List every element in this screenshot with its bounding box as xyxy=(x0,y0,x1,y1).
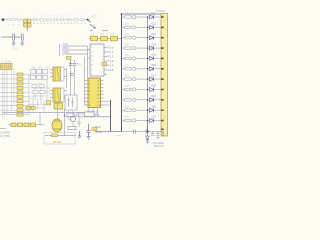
svg-text:D18: D18 xyxy=(152,85,157,88)
wire top chain horizontal xyxy=(1,19,90,21)
svg-text:CON16: CON16 xyxy=(156,9,165,13)
resistor R1 xyxy=(7,18,21,20)
resistor grid R10-R15 xyxy=(31,70,48,80)
svg-text:P1.5: P1.5 xyxy=(108,68,114,72)
net labels for U2 pins xyxy=(108,46,114,73)
resistor R21 xyxy=(85,112,95,117)
svg-text:R10: R10 xyxy=(32,67,37,70)
capacitor C1 xyxy=(2,34,18,46)
op-amp U2 outline box xyxy=(90,44,104,76)
capacitor C5 top xyxy=(90,24,109,31)
svg-text:C1 C2: C1 C2 xyxy=(11,48,18,51)
right row labels xyxy=(125,13,130,120)
svg-text:470: 470 xyxy=(125,95,130,98)
RP1 right stubs xyxy=(23,75,31,115)
svg-text:470: 470 xyxy=(125,54,130,57)
svg-text:P1.2: P1.2 xyxy=(108,55,114,59)
diode chain D1..D8 xyxy=(33,18,84,21)
svg-text:D15: D15 xyxy=(152,54,157,57)
capacitor C7 xyxy=(70,74,74,76)
component box bottom outline xyxy=(44,133,75,145)
svg-text:470: 470 xyxy=(125,64,130,67)
relay K3 small xyxy=(54,103,63,109)
resistor R3 xyxy=(17,18,20,20)
svg-text:RST CLK: RST CLK xyxy=(154,145,164,148)
net label wires group xyxy=(60,44,91,78)
svg-text:JP: JP xyxy=(93,25,96,28)
svg-text:D21: D21 xyxy=(152,116,157,119)
U1 bottom pin stubs xyxy=(89,108,98,117)
node dot xyxy=(64,114,66,116)
ground sym small left xyxy=(78,131,81,137)
resistor RY1 xyxy=(26,106,30,109)
fuse F1 yellow row xyxy=(89,38,122,40)
svg-text:P1.0: P1.0 xyxy=(108,46,114,50)
capacitor C13 yellow xyxy=(92,128,97,131)
svg-text:470: 470 xyxy=(125,106,130,109)
resistor R22 xyxy=(67,114,74,117)
fuse F3 yellow xyxy=(111,36,118,41)
resistor RY2 xyxy=(31,106,35,109)
svg-text:N_TXD: N_TXD xyxy=(1,134,10,138)
svg-text:470: 470 xyxy=(125,75,130,78)
svg-text:D14: D14 xyxy=(152,43,157,46)
value labels above chain xyxy=(7,16,86,18)
svg-text:D17: D17 xyxy=(152,74,157,77)
svg-text:P1.3: P1.3 xyxy=(108,59,114,63)
connector J1 left xyxy=(1,64,13,70)
stubs from U1 to bus xyxy=(104,102,111,106)
small box row upper xyxy=(32,85,44,88)
U1 right pins xyxy=(101,81,104,106)
capacitor C8 bottom xyxy=(87,124,91,139)
svg-text:470: 470 xyxy=(125,85,130,88)
svg-text:D13: D13 xyxy=(152,33,157,36)
mid vertical wires xyxy=(67,57,89,113)
sheet background xyxy=(0,0,170,150)
extra mid-low mesh detail xyxy=(24,96,50,113)
svg-text:R11: R11 xyxy=(39,67,44,70)
right LED rows xyxy=(122,17,162,121)
left wire mesh xyxy=(0,70,17,119)
fuse F2 yellow xyxy=(101,36,108,41)
connector CON16 bar xyxy=(161,14,168,137)
svg-text:J1 12345: J1 12345 xyxy=(1,60,12,63)
junction dots xyxy=(147,16,149,121)
wire xyxy=(78,115,80,122)
buzzer LS1 xyxy=(52,119,62,132)
relay K2 xyxy=(53,88,61,102)
svg-text:D20: D20 xyxy=(152,105,157,108)
top feed wire xyxy=(122,13,162,15)
svg-text:R12: R12 xyxy=(46,67,51,70)
svg-text:D19: D19 xyxy=(152,95,157,98)
svg-text:470: 470 xyxy=(125,23,130,26)
U1 pin numbers inside xyxy=(89,80,101,107)
right row circles xyxy=(133,15,136,122)
second vertical bus xyxy=(147,17,149,132)
svg-text:B12M: B12M xyxy=(53,140,61,144)
bottom area wires xyxy=(3,102,85,136)
crystal Y1 box xyxy=(65,95,77,110)
resistor pack RP1 column xyxy=(17,73,23,116)
capacitor C11 yellow speck xyxy=(102,63,107,66)
svg-text:TXD: TXD xyxy=(63,42,68,46)
vertical bus right of U1 xyxy=(110,100,112,132)
resistor R30 small yellow xyxy=(67,57,72,60)
tiny specks xyxy=(30,82,42,100)
svg-text:D16: D16 xyxy=(152,64,157,67)
capacitor C12 xyxy=(77,122,80,127)
svg-text:P1.1: P1.1 xyxy=(108,50,114,54)
node end arrow xyxy=(87,19,89,21)
relay K1 xyxy=(53,67,61,81)
U2 right pins xyxy=(104,48,107,75)
svg-text:D12: D12 xyxy=(152,23,157,26)
diode D22 to ground xyxy=(146,121,150,144)
svg-text:470: 470 xyxy=(125,33,130,36)
right row diodes xyxy=(150,15,154,123)
value labels below chain xyxy=(7,24,21,26)
bottom right caps xyxy=(111,129,164,138)
microcontroller U1 xyxy=(88,78,101,108)
resistor row RB1 yellow xyxy=(11,123,36,127)
resistor R2 xyxy=(12,18,15,20)
small boxes mid mesh xyxy=(33,91,45,94)
chain lower ticks xyxy=(33,21,86,23)
svg-text:470: 470 xyxy=(125,44,130,47)
U1 left pins xyxy=(85,81,89,106)
mesh between grid and relays xyxy=(31,80,50,105)
node junction dot left xyxy=(2,18,5,21)
transistor Q1 xyxy=(70,116,75,121)
svg-text:470: 470 xyxy=(125,116,130,119)
right row resistors xyxy=(125,16,132,122)
svg-text:470: 470 xyxy=(125,13,130,16)
resistor RY3 xyxy=(47,101,51,106)
wire under U1 xyxy=(65,116,111,118)
svg-text:VCC: VCC xyxy=(91,14,97,18)
wire xyxy=(74,114,79,116)
capacitor C10 pair top xyxy=(69,60,76,65)
svg-text:RXD: RXD xyxy=(63,46,69,50)
resistor R20 xyxy=(68,127,76,130)
svg-text:GND: GND xyxy=(63,50,69,54)
inductor L1 yellow xyxy=(24,19,32,27)
capacitor C2 xyxy=(17,34,24,46)
svg-text:P1.4: P1.4 xyxy=(108,64,114,68)
